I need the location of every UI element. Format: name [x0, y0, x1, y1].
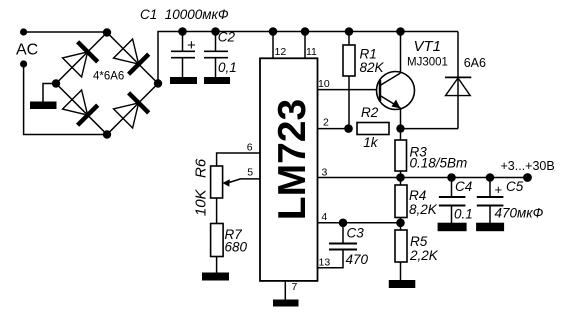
svg-text:470мкФ: 470мкФ: [495, 206, 544, 221]
svg-text:13: 13: [319, 257, 331, 269]
svg-text:1k: 1k: [363, 135, 379, 150]
svg-text:7: 7: [292, 281, 298, 293]
svg-text:+: +: [495, 182, 503, 197]
svg-text:R5: R5: [410, 234, 428, 249]
svg-text:6: 6: [247, 142, 253, 154]
svg-text:MJ3001: MJ3001: [407, 56, 448, 68]
svg-text:C1 10000мкФ: C1 10000мкФ: [140, 7, 229, 22]
svg-text:R6: R6: [193, 158, 210, 178]
svg-text:0.18/5Вт: 0.18/5Вт: [410, 156, 468, 171]
svg-text:C5: C5: [506, 179, 524, 194]
svg-text:6A6: 6A6: [464, 56, 486, 70]
svg-text:4: 4: [321, 211, 327, 223]
svg-text:VT1: VT1: [414, 38, 442, 55]
svg-text:82K: 82K: [360, 60, 385, 75]
svg-text:C2: C2: [218, 30, 236, 45]
svg-text:0.1: 0.1: [454, 207, 473, 222]
svg-text:5: 5: [247, 167, 253, 179]
svg-text:680: 680: [225, 240, 248, 255]
svg-text:470: 470: [346, 252, 369, 267]
svg-text:4*6A6: 4*6A6: [93, 71, 124, 83]
svg-text:2,2K: 2,2K: [409, 248, 439, 263]
svg-text:+3...+30В: +3...+30В: [501, 159, 555, 173]
svg-text:10: 10: [318, 78, 330, 90]
svg-text:R4: R4: [409, 188, 426, 203]
svg-text:R2: R2: [361, 105, 379, 120]
svg-text:0,1: 0,1: [218, 60, 237, 75]
svg-text:AC: AC: [16, 42, 38, 59]
svg-text:10K: 10K: [193, 188, 210, 216]
svg-text:2: 2: [323, 117, 329, 129]
svg-text:3: 3: [322, 166, 328, 178]
svg-text:12: 12: [275, 46, 287, 58]
svg-text:11: 11: [306, 46, 317, 58]
svg-text:LM723: LM723: [271, 99, 314, 220]
svg-text:C4: C4: [455, 179, 472, 194]
svg-text:C3: C3: [347, 226, 365, 241]
svg-text:8,2K: 8,2K: [409, 202, 438, 217]
